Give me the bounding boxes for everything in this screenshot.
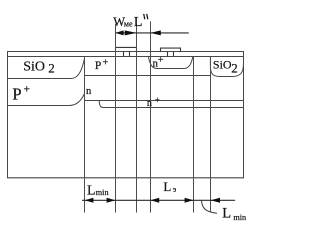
node metal contact cap 2 [161, 48, 181, 52]
svg-text:SiO: SiO [213, 57, 232, 71]
wire contact stem 1 left [123, 52, 125, 57]
svg-text:э: э [173, 184, 177, 194]
wire contact stem 2 left [167, 52, 169, 57]
svg-text:ме: ме [124, 20, 133, 29]
wire leader line to Lmin-right label [201, 201, 217, 214]
wire bottom dimension line [82, 199, 235, 201]
svg-text:2: 2 [48, 61, 55, 76]
svg-text:+: + [158, 55, 164, 66]
node arrow Lmin-left right [107, 198, 116, 203]
svg-text:P: P [95, 60, 101, 72]
svg-text:SiO: SiO [23, 59, 45, 74]
wire device right edge [243, 52, 245, 179]
node arrow Lmin-left left [85, 198, 94, 203]
wire oxide strip bottom line [7, 56, 244, 58]
wire extension line x=210.5 [210, 57, 212, 213]
svg-text:P: P [12, 84, 21, 103]
wire extension line x=136.5 [136, 24, 138, 213]
wire extension line x=150.5 [150, 21, 152, 212]
wire top dimension line [116, 32, 189, 34]
wire extension line x=84.5 [84, 57, 86, 213]
svg-text:n: n [86, 86, 92, 97]
wire oxide strip top surface line [7, 51, 244, 53]
svg-text:2: 2 [231, 61, 238, 76]
node arrow L-dblprime right [150, 30, 160, 35]
node arrow Le right and Lmin-right left [185, 198, 194, 203]
svg-text:min: min [96, 188, 109, 197]
wire extension line x=115.5 [115, 24, 117, 213]
wire n+ buried layer top line [85, 100, 244, 102]
svg-text:+: + [155, 95, 160, 105]
wire contact stem 2 right [173, 52, 175, 57]
wire contact stem 1 right [129, 52, 131, 57]
svg-text:L: L [163, 179, 171, 194]
wire device bottom edge [7, 177, 244, 179]
node metal contact cap 1 [116, 47, 137, 51]
wire P+ base box bottom boundary [85, 75, 211, 77]
svg-text:n: n [147, 98, 152, 109]
wire n+ buried layer bottom line with left hook [99, 101, 243, 108]
node arrow Wme right and L-dblprime left [125, 30, 137, 35]
svg-text:min: min [233, 213, 246, 222]
svg-text:+: + [24, 84, 31, 96]
node n+ emitter bathtub region [148, 57, 193, 69]
wire left P+ isolation bottom boundary with curve [8, 94, 85, 106]
label L-dblprime prime marks [144, 14, 148, 19]
node arrow Le left [150, 198, 159, 203]
wire device left edge [7, 52, 9, 179]
wire left SiO2 region bottom boundary with bird's-beak curve [8, 59, 85, 79]
wire extension line x=193.5 [193, 57, 195, 213]
svg-text:L: L [87, 183, 96, 198]
node right SiO2 isolation region [210, 57, 243, 77]
svg-text:+: + [102, 58, 108, 69]
svg-text:L: L [134, 15, 143, 30]
svg-text:L: L [222, 206, 231, 222]
node arrow Wme left [115, 30, 123, 35]
node arrow Lmin-right right [211, 198, 220, 203]
